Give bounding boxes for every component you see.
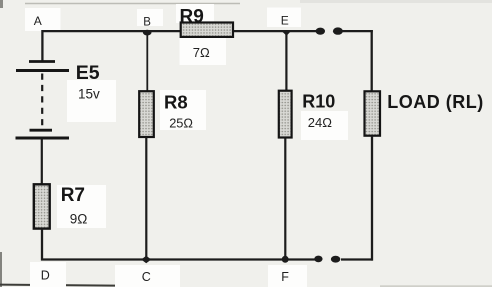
white box behind R8 labels <box>160 90 206 130</box>
wire: bottom switch to right corner <box>341 258 373 260</box>
white box behind R9 label <box>176 4 214 23</box>
svg-text:F: F <box>281 270 289 284</box>
wire: E down to R10 <box>285 31 287 91</box>
svg-text:E: E <box>281 13 289 27</box>
wire: R8 to C <box>145 137 147 260</box>
node A label box <box>25 8 61 31</box>
white box behind 15v label <box>67 80 116 122</box>
wire: R7 to D corner <box>41 229 43 261</box>
svg-text:R9: R9 <box>180 6 204 27</box>
svg-text:B: B <box>143 17 151 29</box>
svg-text:R7: R7 <box>61 185 85 206</box>
wire: battery to R7 <box>41 139 43 185</box>
junction node B <box>143 30 152 36</box>
svg-text:C: C <box>142 270 151 284</box>
wire: top A to switch contact <box>43 30 317 32</box>
svg-text:15v: 15v <box>78 87 100 102</box>
node B label box <box>137 9 163 29</box>
battery E5 <box>16 62 70 139</box>
wire: bottom D to switch contact <box>41 258 316 260</box>
resistor R10 <box>279 91 292 138</box>
wire: right branch down to load <box>371 30 373 92</box>
switch contact top left <box>316 28 325 35</box>
wire: A down to battery <box>41 30 43 62</box>
wire: B down to R8 <box>146 31 148 92</box>
svg-text:9Ω: 9Ω <box>70 211 88 226</box>
wire: top switch to right corner <box>342 30 373 32</box>
switch contact top right <box>333 27 343 34</box>
load resistor RL <box>365 91 381 135</box>
svg-text:LOAD (RL): LOAD (RL) <box>387 92 483 112</box>
white box behind R7 labels <box>57 185 106 228</box>
white box behind 24ohm label <box>301 111 348 140</box>
svg-text:R10: R10 <box>302 92 335 112</box>
junction node C <box>141 256 151 264</box>
wire: R10 to F <box>284 138 286 260</box>
svg-text:A: A <box>34 14 42 28</box>
wire: load to bottom corner <box>371 136 373 261</box>
resistor R8 <box>139 91 154 137</box>
switch contact bottom right <box>331 256 340 263</box>
node E label box <box>267 8 301 28</box>
svg-text:7Ω: 7Ω <box>193 45 210 60</box>
node D label box <box>30 262 66 287</box>
junction node F <box>282 256 289 263</box>
junction node E <box>282 31 291 36</box>
switch contact bottom left <box>314 256 322 263</box>
node C label box <box>115 265 180 287</box>
svg-text:25Ω: 25Ω <box>169 116 193 131</box>
resistor R7 <box>34 184 50 228</box>
svg-text:R8: R8 <box>164 92 188 113</box>
white box behind 7ohm label <box>180 38 227 65</box>
svg-text:24Ω: 24Ω <box>308 115 332 130</box>
resistor R9 <box>181 23 233 37</box>
node F label box <box>268 265 307 287</box>
svg-text:E5: E5 <box>76 62 100 84</box>
svg-text:D: D <box>41 269 50 283</box>
